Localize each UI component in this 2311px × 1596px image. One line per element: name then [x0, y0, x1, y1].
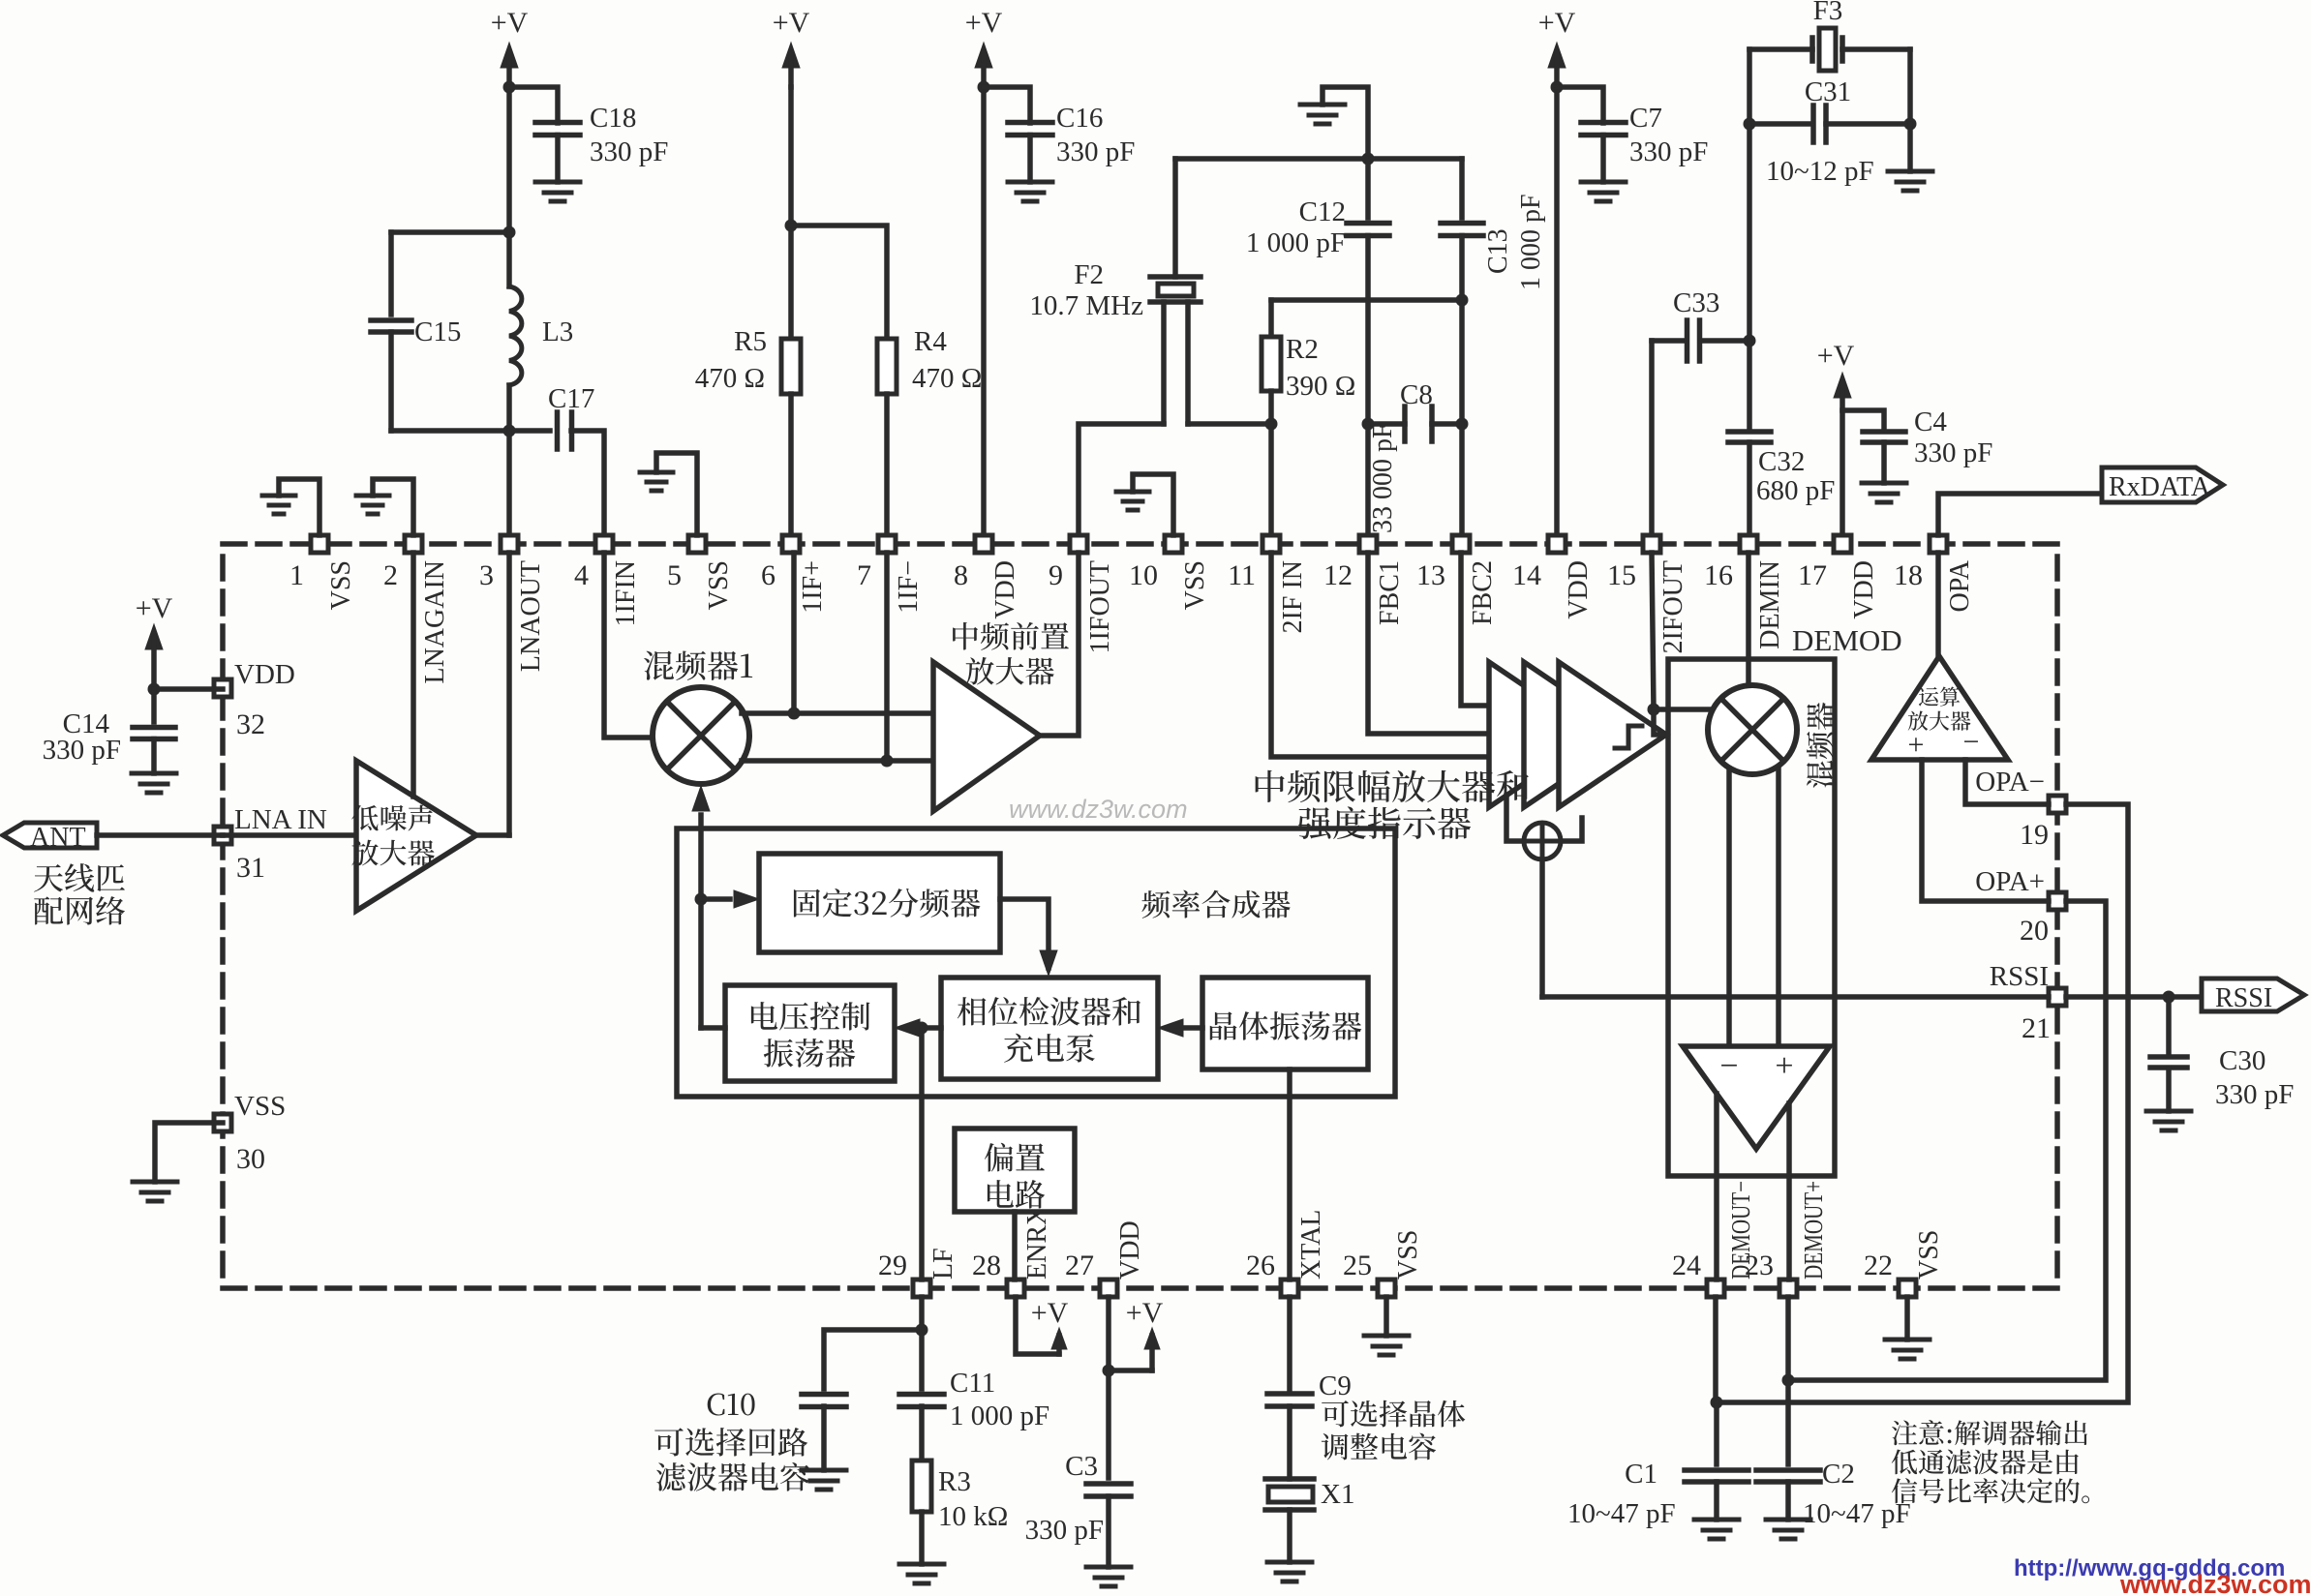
svg-text:C3: C3 — [1065, 1451, 1098, 1482]
svg-text:1 000 pF: 1 000 pF — [1246, 227, 1346, 258]
wire C10 to ground — [821, 1406, 827, 1470]
pin 7 — [878, 535, 896, 553]
capacitor C31 10-12 pF — [1810, 105, 1816, 142]
wire tank to C17 — [509, 428, 550, 434]
wire pin 21 RSSI out — [2066, 994, 2202, 1000]
svg-text:10 kΩ: 10 kΩ — [938, 1501, 1008, 1532]
svg-text:32: 32 — [236, 708, 265, 740]
wire C7 to ground — [1600, 136, 1606, 183]
svg-text:18: 18 — [1894, 559, 1923, 591]
ceramic filter F2 10.7 MHz — [1150, 274, 1201, 280]
wire LNA output to pin 3 — [476, 832, 509, 838]
inductor L3 — [506, 232, 512, 286]
svg-text:330 pF: 330 pF — [1629, 136, 1708, 167]
wire +V node to pin 32 — [154, 686, 223, 692]
svg-text:4: 4 — [574, 559, 589, 591]
svg-text:+V: +V — [1031, 1297, 1069, 1329]
svg-text:330 pF: 330 pF — [43, 735, 121, 766]
label VCO chinese — [751, 1002, 870, 1031]
ground C4 — [1862, 481, 1906, 486]
svg-text:LNAOUT: LNAOUT — [516, 560, 546, 672]
capacitor C32 680 pF — [1728, 429, 1771, 435]
svg-text:470 Ω: 470 Ω — [695, 363, 765, 394]
svg-text:OPA: OPA — [1945, 559, 1975, 612]
wire pin 6 down to mixer output — [791, 553, 797, 713]
wire node to C11 — [919, 1330, 925, 1389]
wire pin 28 ENRX to +V — [1016, 1297, 1059, 1354]
svg-text:L3: L3 — [542, 316, 573, 347]
svg-text:R2: R2 — [1286, 334, 1319, 365]
svg-text:C11: C11 — [950, 1368, 995, 1399]
svg-text:DEMOD: DEMOD — [1792, 623, 1902, 657]
svg-text:10.7 MHz: 10.7 MHz — [1029, 290, 1143, 321]
wire C8 right — [1432, 421, 1462, 427]
svg-text:OPA+: OPA+ — [1975, 866, 2045, 897]
block DEMOD box — [1668, 659, 1835, 1176]
wire C33 from pin 15 — [1649, 341, 1655, 544]
ground R3 — [899, 1562, 944, 1567]
mixer demodulator circle — [1708, 685, 1797, 774]
svg-text:+V: +V — [1817, 340, 1855, 372]
wire VCO corner — [701, 1025, 725, 1031]
wire C32 to pin 16 — [1747, 442, 1752, 544]
resistor R3 10k — [912, 1460, 931, 1512]
wire node to C32 — [1747, 341, 1752, 431]
svg-text:F3: F3 — [1813, 0, 1843, 26]
svg-text:22: 22 — [1864, 1250, 1893, 1281]
svg-text:2: 2 — [383, 559, 398, 591]
wire OPA plus leg to pin 20 — [1922, 760, 2049, 901]
ground C14 — [132, 771, 176, 776]
svg-text:330 pF: 330 pF — [1914, 437, 1992, 468]
capacitor C10 — [802, 1392, 846, 1398]
label frequency synthesizer — [1141, 890, 1290, 918]
wire C16 branch — [984, 87, 1030, 123]
wire tank to pin 3 — [506, 431, 512, 544]
op-amp demod output comparator (down) — [1683, 1046, 1830, 1149]
op-amp IF preamplifier triangle — [933, 662, 1040, 811]
block VCO — [725, 985, 895, 1081]
svg-text:21: 21 — [2022, 1012, 2051, 1044]
wire top bus C12-C13 — [1175, 156, 1462, 162]
svg-text:12: 12 — [1323, 559, 1353, 591]
pin 23 — [1779, 1280, 1797, 1297]
pin 28 — [1007, 1280, 1024, 1297]
wire R3 to ground — [919, 1512, 925, 1564]
wire pin 27 VDD down — [1106, 1297, 1111, 1370]
ground at pin 10 (VSS) — [1133, 474, 1173, 535]
wire C9 to X1 — [1287, 1406, 1292, 1479]
capacitor C2 10-47 pF — [1756, 1467, 1820, 1473]
pin 32 — [214, 679, 231, 697]
resistor R4 470 — [877, 339, 897, 394]
wire pin 2 LNAGAIN into LNA — [411, 553, 416, 797]
wire pin 11 2IF IN to limiter bottom input — [1271, 553, 1489, 757]
amplifier limiter triangle 1 — [1489, 662, 1596, 807]
wire pin 31 to LNA input — [223, 832, 356, 838]
wire pin 7 down to mixer output — [884, 553, 890, 761]
svg-text:25: 25 — [1343, 1250, 1372, 1281]
wire pin 26 to C9 — [1287, 1297, 1292, 1389]
wire pin 4 to mixer1 input — [604, 553, 653, 738]
pin 19 — [2049, 796, 2066, 813]
block phase detector and charge pump — [941, 978, 1158, 1079]
capacitor C33 — [1685, 320, 1690, 361]
wire +V to pin 8 — [981, 87, 987, 544]
pin 12 — [1359, 535, 1377, 553]
svg-text:28: 28 — [972, 1250, 1001, 1281]
capacitor C1 10-47 pF — [1685, 1467, 1748, 1473]
svg-text:ANT: ANT — [30, 823, 86, 853]
svg-text:www.dz3w.com: www.dz3w.com — [2119, 1570, 2311, 1596]
svg-text:DEMIN: DEMIN — [1755, 560, 1785, 649]
label C10 optional loop filter capacitor — [708, 1394, 755, 1416]
svg-text:VSS: VSS — [326, 560, 356, 610]
wire ANT to pin 31 — [97, 832, 223, 838]
ground at pin 22 (VSS) — [1904, 1297, 1910, 1340]
pin 14 — [1548, 535, 1566, 553]
svg-text:10~12 pF: 10~12 pF — [1766, 156, 1874, 187]
svg-text:C33: C33 — [1673, 287, 1719, 318]
svg-text:33 000 pF: 33 000 pF — [1368, 423, 1398, 533]
wire DEMOUT+ leg to pin 23 — [1786, 1103, 1792, 1280]
wire bias to pin 28 — [1012, 1212, 1018, 1280]
ANT input flag — [3, 823, 97, 848]
svg-text:1 000 pF: 1 000 pF — [1516, 194, 1546, 290]
wire OPA output to pin 18 — [1935, 553, 1941, 656]
wire RSSI to C30 — [2166, 997, 2172, 1056]
ground C10 — [802, 1468, 846, 1473]
svg-text:17: 17 — [1798, 559, 1827, 591]
wire preamp output to pin 9 — [1040, 553, 1079, 736]
svg-text:330 pF: 330 pF — [1056, 136, 1135, 167]
block bias circuit — [955, 1129, 1075, 1212]
ground at pin 5 (VSS) — [656, 453, 697, 535]
wire limiter feedback right — [1561, 818, 1582, 841]
pin 1 — [311, 535, 328, 553]
svg-text:VSS: VSS — [1914, 1230, 1944, 1280]
wire C31 left — [1749, 121, 1812, 127]
pin 21 — [2049, 988, 2066, 1006]
wire C17 to pin 4 — [571, 431, 604, 544]
svg-text:XTAL: XTAL — [1296, 1210, 1326, 1280]
svg-text:27: 27 — [1065, 1250, 1094, 1281]
svg-text:2IFOUT: 2IFOUT — [1658, 560, 1688, 653]
svg-text:29: 29 — [878, 1250, 907, 1281]
svg-text:−: − — [1719, 1048, 1738, 1084]
wire R2 node to pin 11 — [1268, 424, 1274, 544]
pin 18 — [1930, 535, 1947, 553]
svg-text:2IF IN: 2IF IN — [1278, 560, 1308, 633]
wire R4 to pin 7 — [884, 394, 890, 544]
wire C31 right — [1826, 121, 1910, 127]
wire C14 to ground — [151, 739, 157, 774]
svg-text:VSS: VSS — [1180, 560, 1210, 610]
svg-text:+V: +V — [1126, 1297, 1164, 1329]
wire demod mixer leg plus — [1776, 769, 1781, 1046]
svg-text:LF: LF — [928, 1248, 958, 1280]
svg-text:VSS: VSS — [1393, 1230, 1423, 1280]
wire C11 to R3 — [919, 1406, 925, 1460]
output flag RxDATA — [2102, 467, 2223, 502]
wire tank bottom — [391, 428, 509, 434]
svg-text:13: 13 — [1416, 559, 1445, 591]
label op amp chinese — [1919, 686, 1960, 706]
wire F2 left to pin 9 — [1079, 424, 1164, 544]
wire node to C3 — [1106, 1370, 1111, 1478]
wire pin 19 to demout- bus — [1717, 804, 2128, 1402]
pin 27 — [1100, 1280, 1117, 1297]
svg-text:VDD: VDD — [990, 560, 1020, 619]
wire demod mixer leg minus — [1726, 771, 1732, 1046]
svg-text:8: 8 — [954, 559, 968, 591]
pin 3 — [501, 535, 518, 553]
block frequency synthesizer outer box — [677, 828, 1395, 1097]
capacitor C16 — [1008, 120, 1052, 126]
svg-text:6: 6 — [761, 559, 775, 591]
svg-text:+V: +V — [965, 7, 1003, 39]
wire C4 branch — [1842, 410, 1884, 431]
op-amp LNA (low noise amplifier) triangle — [356, 761, 476, 911]
pin 5 — [688, 535, 706, 553]
svg-text:24: 24 — [1672, 1250, 1701, 1281]
pin 24 — [1707, 1280, 1724, 1297]
capacitor C4 330 pF — [1863, 429, 1905, 435]
wire C18 to ground — [555, 136, 561, 183]
svg-text:C15: C15 — [414, 316, 461, 347]
wire +V to pin 14 — [1554, 87, 1560, 544]
svg-text:30: 30 — [236, 1143, 265, 1175]
wire DEMIN node down — [1747, 124, 1752, 341]
wire LF pin 29 to loop filter node — [919, 1028, 925, 1280]
svg-text:R5: R5 — [734, 326, 767, 357]
label LNA chinese — [351, 805, 434, 831]
svg-text:RSSI: RSSI — [1990, 961, 2049, 992]
capacitor C11 1000 pF — [899, 1392, 944, 1398]
svg-text:R4: R4 — [914, 326, 947, 357]
wire pin 20 to demout+ bus — [1788, 901, 2106, 1380]
capacitor C13 1000 pF — [1459, 159, 1465, 218]
wire C8 left — [1368, 421, 1405, 427]
svg-text:C16: C16 — [1056, 103, 1103, 134]
pin 30 — [214, 1114, 231, 1131]
pin 22 — [1899, 1280, 1916, 1297]
svg-text:1IF−: 1IF− — [894, 560, 924, 614]
label bias chinese — [985, 1143, 1045, 1172]
svg-text:1IFIN: 1IFIN — [611, 560, 641, 626]
svg-text:R3: R3 — [938, 1466, 971, 1497]
pin 13 — [1452, 535, 1470, 553]
wire crystal osc to pin 26 XTAL — [1287, 1069, 1292, 1280]
capacitor C9 — [1267, 1391, 1312, 1397]
wire X1 to ground — [1287, 1510, 1292, 1562]
mixer 1 circle — [653, 687, 749, 784]
pin 17 — [1834, 535, 1851, 553]
capacitor C3 330 pF — [1086, 1481, 1131, 1487]
svg-text:15: 15 — [1607, 559, 1636, 591]
svg-text:26: 26 — [1246, 1250, 1275, 1281]
label mixer1 chinese — [644, 651, 752, 680]
svg-text:C1: C1 — [1625, 1459, 1657, 1490]
svg-text:VDD: VDD — [1849, 560, 1879, 619]
capacitor C15 — [388, 232, 394, 315]
svg-text:C30: C30 — [2219, 1045, 2265, 1076]
svg-text:330 pF: 330 pF — [2215, 1079, 2294, 1110]
svg-text:470 Ω: 470 Ω — [912, 363, 982, 394]
svg-text:ENRX: ENRX — [1022, 1206, 1052, 1280]
svg-text:1 000 pF: 1 000 pF — [950, 1400, 1049, 1431]
svg-text:F2: F2 — [1074, 259, 1104, 290]
svg-text:C31: C31 — [1805, 76, 1851, 107]
svg-text:RxDATA: RxDATA — [2109, 472, 2211, 502]
wire pin 24 to C1 — [1713, 1297, 1718, 1402]
pin 6 — [782, 535, 800, 553]
wire C18 branch — [509, 87, 558, 123]
wire node to +V arrow — [1109, 1368, 1152, 1373]
svg-text:1: 1 — [289, 559, 304, 591]
wire pin 23 to C2 — [1785, 1297, 1791, 1380]
svg-text:31: 31 — [236, 852, 265, 884]
label IF limiting amplifier and strength indicator — [1256, 770, 1529, 803]
pin 15 — [1643, 535, 1660, 553]
wire F3 right down — [1907, 49, 1913, 124]
svg-text:+V: +V — [136, 592, 173, 624]
svg-text:1IF+: 1IF+ — [798, 560, 828, 614]
svg-text:23: 23 — [1745, 1250, 1774, 1281]
limiter clipping symbol — [1615, 726, 1642, 748]
wire R2 top to C13 node — [1271, 297, 1462, 303]
svg-text:OPA−: OPA− — [1975, 767, 2045, 798]
svg-text:FBC2: FBC2 — [1468, 560, 1498, 625]
pin 2 — [405, 535, 422, 553]
svg-text:C18: C18 — [590, 103, 636, 134]
wire C14 — [151, 689, 157, 722]
ground at pin 1 (VSS) — [279, 479, 319, 535]
wire C16 to ground — [1027, 136, 1033, 183]
ground X1 — [1267, 1560, 1312, 1565]
ceramic filter F3 — [1749, 46, 1812, 52]
svg-text:VDD: VDD — [1564, 560, 1594, 619]
pin 20 — [2049, 892, 2066, 910]
ground for C12/C13 bus — [1323, 87, 1368, 159]
pin 16 — [1740, 535, 1757, 553]
wire pin 29 to C10/C11 node — [919, 1297, 925, 1330]
ground C31 — [1888, 169, 1932, 174]
wire mixer1 top output to IF preamp — [742, 710, 933, 716]
wire pin 13 FBC2 to limiter top input — [1461, 553, 1489, 706]
svg-text:+: + — [1908, 729, 1925, 761]
note text about demodulator output low pass filter — [1892, 1420, 2087, 1445]
wire C1 to ground — [1714, 1482, 1719, 1520]
label demod mixer chinese (rotated) — [1807, 703, 1834, 788]
svg-text:+V: +V — [491, 7, 529, 39]
capacitor C7 — [1581, 120, 1626, 126]
wire limiter feedback left — [1506, 796, 1524, 841]
svg-text:C17: C17 — [548, 383, 594, 414]
ground C16 — [1008, 180, 1052, 185]
svg-text:C12: C12 — [1299, 196, 1346, 227]
svg-text:7: 7 — [857, 559, 871, 591]
wire phase detector to VCO arrow — [920, 1025, 941, 1031]
wire C33 to DEMIN node — [1700, 338, 1749, 344]
label divide by 32 — [794, 888, 981, 918]
label antenna matching network — [34, 863, 125, 892]
svg-text:C32: C32 — [1758, 446, 1805, 477]
svg-text:390 Ω: 390 Ω — [1286, 371, 1355, 402]
svg-text:+V: +V — [773, 7, 810, 39]
wire limiter output to demod mixer — [1654, 707, 1715, 712]
pin 4 — [595, 535, 613, 553]
capacitor C17 — [555, 412, 561, 449]
wire +V down to R5 — [788, 87, 794, 339]
svg-text:3: 3 — [479, 559, 494, 591]
svg-text:C7: C7 — [1629, 103, 1662, 134]
wire divider output to phase detector — [1000, 899, 1049, 968]
pin 11 — [1262, 535, 1280, 553]
capacitor C14 330 pF — [133, 725, 175, 731]
svg-text:1IFOUT: 1IFOUT — [1085, 560, 1115, 653]
pin 8 — [975, 535, 992, 553]
wire C4 to ground — [1881, 442, 1887, 483]
amplifier limiter triangle 3 — [1559, 662, 1666, 807]
wire limiter output to 2IFOUT node — [1654, 709, 1666, 735]
wire C31 to ground — [1907, 124, 1913, 171]
svg-text:+V: +V — [1538, 7, 1576, 39]
wire R5 to pin 6 — [788, 394, 794, 544]
svg-text:C13: C13 — [1483, 228, 1513, 274]
wire pin 15 to 2IFOUT node — [1652, 553, 1654, 709]
label phase detector chinese — [958, 997, 1140, 1026]
resistor R2 390 — [1268, 300, 1274, 337]
pin 26 — [1281, 1280, 1298, 1297]
wire crystal osc to phase detector arrow — [1183, 1025, 1202, 1031]
svg-text:VSS: VSS — [234, 1091, 286, 1122]
svg-text:330 pF: 330 pF — [590, 136, 668, 167]
wire RSSI internal line to pin 21 — [1542, 994, 2049, 1000]
ground at pin 30 (VSS) — [155, 1123, 223, 1182]
svg-text:11: 11 — [1228, 559, 1256, 591]
svg-text:DEMOUT+: DEMOUT+ — [1799, 1181, 1828, 1280]
wire C30 to ground — [2166, 1069, 2172, 1111]
svg-text:LNA IN: LNA IN — [234, 804, 327, 835]
ground C30 — [2146, 1109, 2191, 1114]
svg-text:330 pF: 330 pF — [1025, 1515, 1104, 1546]
wire pin 16 DEMIN to mixer — [1746, 553, 1751, 685]
wire node to C10 — [824, 1330, 922, 1389]
pin 29 — [913, 1280, 930, 1297]
wire VCO to mixer1 LO — [698, 815, 704, 1028]
capacitor C8 33000 pF — [1402, 407, 1408, 441]
ground C2 — [1766, 1518, 1810, 1522]
svg-text:680 pF: 680 pF — [1756, 475, 1835, 506]
capacitor C18 — [535, 120, 580, 126]
wire DEMOUT- leg to pin 24 — [1714, 1094, 1719, 1280]
ground C1 — [1694, 1518, 1739, 1522]
svg-text:RSSI: RSSI — [2215, 983, 2272, 1013]
amplifier limiter triangle 2 — [1524, 662, 1631, 807]
svg-text:5: 5 — [667, 559, 682, 591]
svg-text:9: 9 — [1049, 559, 1063, 591]
ground C7 — [1581, 180, 1626, 185]
svg-text:VSS: VSS — [704, 560, 734, 610]
wire pin 18 to RxDATA — [1938, 494, 2102, 535]
op-amp OPA triangle (up) — [1871, 656, 2008, 760]
svg-text:VDD: VDD — [234, 659, 295, 690]
label IF preamp chinese — [953, 622, 1069, 650]
wire F2 right to R2 node — [1188, 421, 1271, 427]
pin 25 — [1378, 1280, 1395, 1297]
capacitor C30 330 pF — [2150, 1054, 2187, 1060]
